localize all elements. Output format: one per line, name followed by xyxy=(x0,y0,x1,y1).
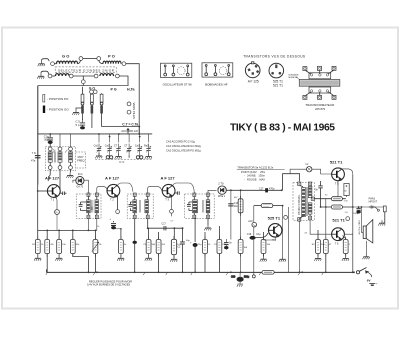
IF1 top pin b xyxy=(95,193,98,196)
svg-text:9V: 9V xyxy=(367,279,371,283)
electrolytic 100u xyxy=(353,206,361,215)
bottom bus xyxy=(46,271,354,273)
wire L1 tap to term1 xyxy=(78,60,81,63)
svg-text:POINT QU2V: 25m: POINT QU2V: 25m xyxy=(241,170,265,174)
trimmer CA2 xyxy=(105,134,113,159)
resistor R4 xyxy=(70,230,89,273)
transistor T1 AF127 xyxy=(47,185,60,202)
ground antenna row2 xyxy=(37,71,48,79)
IF2 top pin b xyxy=(146,193,149,196)
core bar xyxy=(299,80,340,87)
lamp LV xyxy=(306,163,312,172)
T3 emitter down wire xyxy=(170,197,174,217)
coil L1 GO xyxy=(54,53,77,63)
osc coil column 3 xyxy=(69,134,73,172)
ground near D1 xyxy=(66,173,73,178)
capacitor C19 xyxy=(177,227,184,272)
svg-text:521 T1: 521 T1 xyxy=(273,84,283,88)
volume pot wire xyxy=(253,205,255,207)
core lines xyxy=(306,187,307,216)
wire y207 to jack xyxy=(353,206,383,208)
jack socket xyxy=(378,206,386,226)
terminal A2 xyxy=(48,74,52,78)
terminal square t2 xyxy=(318,66,322,74)
IF3 top pin a xyxy=(193,193,196,196)
IF3 right pin down gnd xyxy=(204,219,211,231)
secondary bottom pin xyxy=(309,216,312,220)
resistor R7 xyxy=(145,228,152,261)
wire pot top from IF1 xyxy=(96,229,98,231)
wire term4 right xyxy=(73,75,94,77)
IF3 winding primary xyxy=(193,196,198,215)
terminal 3 xyxy=(122,62,126,66)
coil L2 PO xyxy=(99,53,121,63)
svg-text:47a: 47a xyxy=(31,159,36,163)
coil L3 xyxy=(52,74,69,76)
cap C16 on detector line xyxy=(228,203,239,208)
svg-text:CT: CT xyxy=(114,145,118,148)
bottom bobbin xyxy=(309,87,331,93)
svg-text:- JAUNE: 130m: - JAUNE: 130m xyxy=(244,174,265,178)
IF2 winding secondary xyxy=(145,196,149,215)
svg-text:VERS PILES: VERS PILES xyxy=(132,103,136,119)
T6 base wire xyxy=(310,220,332,234)
node dot 4 xyxy=(138,133,140,135)
svg-text:C.T = C.Ta: C.T = C.Ta xyxy=(122,122,138,126)
h resistor Rb xyxy=(321,205,353,209)
svg-text:0,4V AUX BORNES DE 9 V2LT: 0,4V AUX BORNES DE 9 V2LTAGES xyxy=(87,283,130,287)
svg-text:P G: P G xyxy=(111,88,117,92)
svg-text:BOBINAGES HF: BOBINAGES HF xyxy=(205,83,228,87)
svg-text:525 T1: 525 T1 xyxy=(268,216,281,221)
tuning slug B xyxy=(91,94,94,128)
bobinages HF box xyxy=(202,63,233,87)
svg-text:TRANSISTOR 5e AC132 B 2s: TRANSISTOR 5e AC132 B 2s xyxy=(237,166,274,170)
svg-text:1.3R: 1.3R xyxy=(126,151,131,153)
ground antenna row1 xyxy=(38,59,49,66)
wire term1-term2 xyxy=(83,58,97,60)
bus node dots xyxy=(96,271,98,273)
node dot 1 xyxy=(49,133,51,135)
IF1 winding secondary xyxy=(95,196,99,215)
svg-text:- POSITION GO: - POSITION GO xyxy=(47,108,69,112)
potentiometer RV1 xyxy=(92,230,99,273)
svg-text:D.G: D.G xyxy=(78,172,83,176)
terminal square b1 xyxy=(303,92,311,99)
svg-text:REGLER PUISSANCE POUR AVOIR: REGLER PUISSANCE POUR AVOIR xyxy=(89,279,132,283)
wire term3 right down xyxy=(126,64,139,134)
terminal A1 xyxy=(51,62,55,66)
IF3 cap xyxy=(187,202,194,211)
svg-text:HP EXT: HP EXT xyxy=(369,201,378,204)
wire D1 to IF1 pin xyxy=(84,180,88,193)
capacitor C20 xyxy=(224,239,232,250)
terminal 7 drop xyxy=(81,76,85,86)
svg-text:2 T9: 2 T9 xyxy=(218,182,224,186)
terminal square b2 xyxy=(318,92,322,99)
terminal square t3 xyxy=(328,66,336,74)
svg-text:ACCORD GO: ACCORD GO xyxy=(121,129,138,133)
secondary mid pin xyxy=(311,197,314,200)
svg-text:CT: CT xyxy=(124,145,128,148)
resistor R3 xyxy=(55,230,62,260)
osc tuning arrows xyxy=(53,150,68,153)
series resistor in bus xyxy=(262,271,274,275)
terminal 5 xyxy=(94,74,98,78)
svg-text:100μ: 100μ xyxy=(353,213,359,215)
trimmer CT1 xyxy=(114,134,122,159)
node after detector xyxy=(230,189,232,191)
resistor R16 xyxy=(342,237,349,261)
wire LV to base T5 xyxy=(312,169,332,174)
svg-text:2082: 2082 xyxy=(195,207,197,213)
legend position GO xyxy=(43,106,70,114)
T5 emitter down xyxy=(337,181,339,197)
svg-text:TRANSISTORS VUS DE DESSOUS: TRANSISTORS VUS DE DESSOUS xyxy=(243,55,305,59)
ground right area xyxy=(363,254,370,259)
jack plugs xyxy=(369,205,380,211)
driver transformer dashed box xyxy=(293,183,314,221)
feedback resistor horizontal xyxy=(254,204,283,208)
svg-text:A10: A10 xyxy=(248,220,253,223)
bus left elbow xyxy=(45,269,47,272)
CA note text block xyxy=(166,140,201,153)
svg-text:OSCILLATEUR 5T 96: OSCILLATEUR 5T 96 xyxy=(163,83,192,87)
IF2 dashed box xyxy=(127,194,153,218)
svg-text:TIKY ( B 83 ) - MAI 1965: TIKY ( B 83 ) - MAI 1965 xyxy=(230,123,335,134)
svg-text:TRANSFO DRIVER: TRANSFO DRIVER xyxy=(297,195,300,216)
chassis tick marks xyxy=(46,272,324,275)
osc coil column 1 xyxy=(48,147,52,181)
IF1 core xyxy=(92,200,93,213)
IF1 dashed box xyxy=(76,194,101,218)
legend position PO xyxy=(43,95,69,103)
svg-text:FREQ: FREQ xyxy=(77,158,84,162)
IF3 bottom pin a xyxy=(193,215,196,218)
terminal 1 xyxy=(79,57,83,61)
svg-text:MOY: MOY xyxy=(78,155,84,159)
wire pot to feedback node xyxy=(253,206,255,236)
svg-text:- ROUGE: MAX: - ROUGE: MAX xyxy=(244,178,265,182)
electrolytic box xyxy=(344,184,349,197)
wire LV left xyxy=(290,169,306,174)
vertical to bus from loop xyxy=(282,238,284,257)
node dot 3 xyxy=(118,133,120,135)
speaker HP xyxy=(361,206,373,254)
svg-text:521 T1: 521 T1 xyxy=(332,218,345,223)
terminal 6 xyxy=(116,74,120,78)
T1 emitter bypass cap xyxy=(60,192,66,196)
svg-text:C17: C17 xyxy=(162,222,167,225)
T2 base wire from IF1 xyxy=(97,187,108,193)
terminal 4 xyxy=(69,74,73,78)
terminal vers piles 2 xyxy=(127,110,131,114)
terminal square t1 xyxy=(303,67,311,74)
resistor R11 xyxy=(217,226,222,272)
svg-text:470p: 470p xyxy=(269,187,275,190)
IF1 winding primary xyxy=(87,196,91,215)
ground mid xyxy=(72,108,82,115)
test point T6 xyxy=(346,217,350,221)
diode D1 xyxy=(76,177,84,189)
svg-text:MUMETAL: MUMETAL xyxy=(289,76,300,79)
T6 emitter down xyxy=(342,236,345,241)
capacitor C1 5p xyxy=(76,119,86,130)
transistor T2 AF127 xyxy=(107,184,120,201)
svg-text:- POSITION PO: - POSITION PO xyxy=(47,97,69,101)
vertical from Ra left down xyxy=(325,199,327,240)
terminal square b3 xyxy=(328,92,336,100)
capacitor C17 on line xyxy=(162,222,167,230)
detector node down wire xyxy=(230,190,232,239)
label GO twin terminals xyxy=(89,87,97,94)
IF1 bottom pin b xyxy=(95,215,98,218)
loop wire to transformer pin xyxy=(283,174,300,191)
pinout AF125 xyxy=(245,62,260,84)
top bobbin xyxy=(309,73,331,79)
line under IF2 xyxy=(148,227,184,229)
svg-text:Ra3: Ra3 xyxy=(144,145,149,148)
osc block label MOY FREQ xyxy=(76,152,86,168)
inner chassis top edge xyxy=(38,85,129,87)
variable capacitor CV xyxy=(31,151,41,163)
node at driver base loop xyxy=(281,189,283,191)
electrolytic C ecap1 xyxy=(109,217,121,230)
resistor R8 xyxy=(156,232,161,272)
wire IF2 left pin down with ecap xyxy=(133,219,137,273)
resistor R6 xyxy=(117,228,124,261)
power switch xyxy=(353,268,372,278)
svg-text:T 1: T 1 xyxy=(51,198,55,202)
svg-text:LV: LV xyxy=(306,163,309,166)
transistor T3 AF127 xyxy=(162,184,175,201)
top supply bus xyxy=(38,133,153,135)
IF2 bottom pin b xyxy=(146,215,149,218)
resistor R15 xyxy=(323,237,328,273)
primary bottom wire xyxy=(299,221,301,272)
svg-text:521 T1: 521 T1 xyxy=(330,159,343,164)
svg-text:T 3: T 3 xyxy=(165,197,169,201)
tuning slug A xyxy=(81,87,84,119)
svg-text:T 6: T 6 xyxy=(335,241,339,245)
svg-text:Ca2: Ca2 xyxy=(105,145,110,148)
IF2 cap xyxy=(129,202,135,211)
osc coil column 2 xyxy=(58,134,62,189)
arrow tick on bus xyxy=(127,129,129,135)
T2 test point xyxy=(116,196,120,214)
thermistor Th xyxy=(55,210,60,231)
IF3 top pin b xyxy=(207,193,210,196)
wire IF1 pins down xyxy=(88,219,96,231)
h resistor Ra xyxy=(314,197,345,201)
IF3 core xyxy=(203,200,204,213)
svg-text:MHa 1: MHa 1 xyxy=(218,195,226,198)
trimmer CA3 xyxy=(135,134,143,159)
component value labels xyxy=(32,195,351,250)
svg-text:10μ: 10μ xyxy=(256,233,261,236)
wire T1 emitter to Th xyxy=(55,197,57,209)
coil L4 xyxy=(100,74,114,76)
svg-text:CA1 OSCILLATEUR GO M/2g: CA1 OSCILLATEUR GO M/2g xyxy=(166,144,201,148)
node dot 2 xyxy=(98,133,100,135)
secondary winding 1 xyxy=(308,186,312,198)
battery 9V xyxy=(367,279,378,286)
detector diode D xyxy=(218,182,226,198)
svg-text:A F 125: A F 125 xyxy=(248,80,259,84)
svg-text:100μ: 100μ xyxy=(244,276,250,278)
detector out wire xyxy=(226,189,281,191)
svg-text:T 2: T 2 xyxy=(110,197,114,201)
transistor 521T1 top xyxy=(332,168,345,185)
secondary winding 2 xyxy=(308,203,312,216)
collector line 525T1 xyxy=(288,207,290,272)
osc core lines xyxy=(55,152,56,163)
mid AGC line xyxy=(38,229,97,231)
IF3 dashed box xyxy=(185,194,215,218)
node dots on AGC line xyxy=(46,230,48,232)
svg-text:H,Ta: H,Ta xyxy=(127,88,136,92)
resistor R12b on detector line upper xyxy=(238,196,243,216)
wire IF3 to detector xyxy=(208,190,217,193)
svg-text:C18: C18 xyxy=(247,233,252,236)
tuning slug C xyxy=(100,93,140,134)
selector dashed box xyxy=(55,67,116,73)
svg-text:Ca3: Ca3 xyxy=(135,145,140,148)
T3 base wire from IF2 xyxy=(148,187,162,193)
terminal vers piles 1 xyxy=(127,102,131,106)
svg-text:225 879: 225 879 xyxy=(315,107,326,111)
IF2 core xyxy=(140,200,141,213)
svg-text:7 N: 7 N xyxy=(32,151,36,155)
trimmer CT2 xyxy=(124,134,131,158)
resistor R12 on detector line xyxy=(238,190,243,272)
primary winding xyxy=(300,186,306,220)
wire IF2 right pin to C line xyxy=(147,219,149,229)
oscillator block dashed box xyxy=(45,147,75,171)
svg-text:HAUT P 12TM: HAUT P 12TM xyxy=(357,221,360,235)
trimmer CA4 xyxy=(144,134,152,159)
IF1 bottom pin a xyxy=(87,215,90,218)
volume pot terminal xyxy=(248,220,256,227)
IF2 bottom pin a xyxy=(133,215,136,218)
svg-text:P O: P O xyxy=(108,53,115,58)
IF1 cap xyxy=(79,202,89,211)
T1 base wire xyxy=(37,190,48,192)
wire T3 collector to IF3 xyxy=(173,183,195,193)
wire T2 collector to IF2 xyxy=(117,183,132,192)
electrolytic ecap2 xyxy=(190,218,198,272)
right long vertical xyxy=(352,174,354,272)
capacitor C47 470p xyxy=(259,187,275,192)
svg-text:C17: C17 xyxy=(259,187,264,190)
wire term6 right down xyxy=(119,76,128,86)
svg-text:CA3 ACCORD PO 2 V2g: CA3 ACCORD PO 2 V2g xyxy=(166,140,195,144)
transformer top-left pin xyxy=(298,182,301,186)
capacitor C18 10u to base xyxy=(247,233,268,240)
trimmer CA1 xyxy=(94,134,103,158)
resistor R10 xyxy=(203,232,208,272)
node before C47 xyxy=(240,189,242,191)
IF3 bottom pin b xyxy=(207,215,210,218)
IF2 top pin a xyxy=(133,193,136,196)
resistor R2 xyxy=(45,230,50,272)
svg-text:C.V.: C.V. xyxy=(119,160,125,164)
transformer bottom-left pin xyxy=(298,218,301,222)
cap near transformer xyxy=(315,181,323,207)
left vertical bus xyxy=(37,86,39,231)
resistor R9 tall xyxy=(170,228,177,261)
resistor R1 xyxy=(34,230,41,260)
svg-text:C20: C20 xyxy=(231,276,236,278)
svg-text:T 5: T 5 xyxy=(335,181,339,185)
pinout 525T1 xyxy=(269,63,284,87)
IF1 top pin a xyxy=(87,193,90,196)
resistor R14 xyxy=(314,230,321,261)
svg-text:A F 127: A F 127 xyxy=(105,176,120,181)
T6 collector right xyxy=(344,233,352,235)
node dots y207 xyxy=(325,206,327,208)
svg-text:CA2 OSCILLATEUR PO M/2g: CA2 OSCILLATEUR PO M/2g xyxy=(166,148,201,152)
secondary top pin xyxy=(309,182,312,186)
svg-text:G O: G O xyxy=(62,53,69,58)
svg-text:A F 127: A F 127 xyxy=(45,176,60,181)
svg-text:OA 70: OA 70 xyxy=(76,185,83,188)
IF3 winding secondary xyxy=(206,196,210,215)
svg-text:SELECTEUR D'ONDES 2N/GR: SELECTEUR D'ONDES 2N/GR xyxy=(58,68,115,72)
collector wire right xyxy=(341,169,353,174)
driver emitter resistor wire xyxy=(264,237,276,240)
svg-text:5 p: 5 p xyxy=(76,123,80,127)
test point near 525T1 xyxy=(284,216,288,220)
IF2 winding primary xyxy=(133,196,137,215)
resistor R13 xyxy=(260,232,267,262)
vertical x283 down xyxy=(282,206,284,238)
T3 emitter bypass cap xyxy=(175,191,179,194)
svg-text:A F 127: A F 127 xyxy=(161,176,176,181)
bias table xyxy=(237,166,285,182)
driver collector wire down xyxy=(282,189,284,191)
transistor 521T1 bottom xyxy=(332,228,345,246)
driver transformer pictorial xyxy=(289,66,340,111)
svg-text:Ca1: Ca1 xyxy=(94,145,99,148)
trimmer gang dashed box xyxy=(95,160,151,164)
wire C18 return down xyxy=(253,240,255,275)
oscillator block box xyxy=(161,63,192,86)
terminal 2 xyxy=(97,57,101,61)
wire D1 left stub xyxy=(73,180,76,183)
svg-text:50p: 50p xyxy=(44,138,49,142)
capacitor C1a 50p xyxy=(44,134,53,147)
transistor 525T1 driver xyxy=(268,224,281,242)
